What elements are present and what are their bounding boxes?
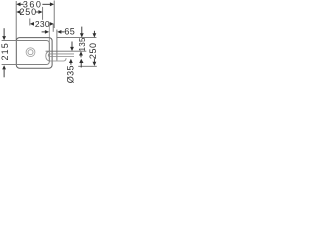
background bbox=[0, 0, 100, 86]
bowl bottom line (long) bbox=[46, 50, 87, 52]
dimension 250 (top) bbox=[16, 7, 42, 17]
arrow down bbox=[3, 28, 5, 36]
extension line x54.2 (360 + 230 right) bbox=[53, 1, 55, 29]
inner right edge emphasize bbox=[48, 43, 50, 62]
side view back edge x56.9 bbox=[56, 30, 58, 61]
second up arrow bbox=[79, 59, 83, 68]
washbasin top view: outer body bbox=[16, 38, 52, 69]
extension line left x16.2 bbox=[15, 1, 17, 41]
drain double circle bbox=[26, 48, 35, 57]
drain pipe capsule outer bbox=[46, 51, 66, 61]
drain pipe inner cap bbox=[48, 54, 49, 57]
dimension 135 (vertical) bbox=[78, 27, 87, 58]
extension line x42.6 (250 right) bbox=[42, 7, 44, 20]
svg-text:250: 250 bbox=[88, 43, 98, 60]
dimension 360 bbox=[16, 0, 54, 10]
inner bowl outline (top, right, bottom) bbox=[2, 41, 50, 65]
extension line x53.2 bbox=[52, 24, 54, 32]
dimension 65 bbox=[42, 27, 76, 37]
dimension 215 (left, vertical) bbox=[0, 28, 10, 77]
arrow up bbox=[2, 65, 6, 69]
svg-text:Ø35: Ø35 bbox=[66, 65, 76, 83]
dimension 250 (vertical right) bbox=[78, 31, 98, 67]
down arrow onto bowl bottom line bbox=[70, 42, 74, 52]
svg-text:215: 215 bbox=[0, 42, 10, 60]
extension line x30.8 (230 left) bbox=[29, 19, 31, 26]
svg-text:250: 250 bbox=[19, 7, 36, 17]
extension line x49.3 (inner edge extended) bbox=[48, 26, 50, 44]
dimension 230 bbox=[30, 19, 54, 29]
svg-text:135: 135 bbox=[78, 37, 87, 51]
label Ø35 with pointer arrow bbox=[66, 59, 76, 84]
bottom line bbox=[78, 65, 97, 67]
side view top surface line bbox=[57, 37, 97, 39]
svg-text:65: 65 bbox=[64, 27, 75, 37]
svg-text:230: 230 bbox=[35, 19, 50, 29]
